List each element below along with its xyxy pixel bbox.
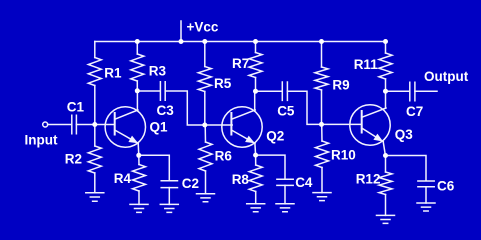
svg-text:C1: C1 [67, 100, 85, 115]
transistor Q2 [222, 91, 262, 155]
node Q2 emitter [253, 153, 258, 158]
svg-text:C5: C5 [277, 104, 295, 119]
svg-text:R5: R5 [214, 76, 232, 91]
resistor R10 [316, 141, 329, 168]
resistor R9 [315, 67, 328, 90]
wire C7 to output [415, 90, 437, 92]
wire Q1 collector node to C3 [137, 90, 159, 92]
svg-text:C6: C6 [437, 179, 455, 194]
capacitor C2 [161, 181, 177, 188]
svg-text:Output: Output [424, 69, 469, 84]
wire Q3 collector node to C7 [386, 90, 410, 92]
wire C2 to ground [168, 188, 170, 205]
svg-text:R9: R9 [332, 78, 349, 93]
svg-text:R2: R2 [65, 152, 82, 167]
node rail-R3 [135, 39, 140, 44]
wire R6 leads [204, 125, 206, 194]
node rail-R7 [253, 39, 258, 44]
wire R10 leads [321, 124, 323, 192]
svg-text:Q2: Q2 [266, 128, 284, 143]
ground under C4 [276, 204, 294, 212]
wire R1 bottom to input node [94, 86, 96, 125]
capacitor C6 [418, 181, 434, 187]
wire C6 to ground [425, 187, 427, 203]
capacitor C4 [277, 179, 293, 185]
wire top supply rail [95, 41, 386, 43]
svg-text:R6: R6 [215, 149, 233, 164]
node Q3 emitter [383, 153, 388, 158]
ground under R4 [130, 204, 148, 212]
resistor R1 [88, 58, 101, 86]
capacitor C3 [160, 82, 165, 100]
node rail-R11 [383, 39, 388, 44]
wire C3 to Q2 base [165, 91, 232, 125]
capacitor C5 [282, 82, 287, 100]
svg-text:R10: R10 [331, 147, 356, 162]
resistor R12 [379, 172, 392, 195]
transistor Q1 [105, 91, 145, 156]
resistor R8 [249, 165, 262, 192]
svg-text:C3: C3 [157, 103, 175, 118]
node rail-Vcc [179, 39, 184, 44]
wire R5 leads [204, 42, 206, 126]
node Q3 base [319, 122, 324, 127]
wire C5 to Q3 base [287, 91, 361, 124]
input terminal circle [43, 122, 48, 127]
svg-text:+Vcc: +Vcc [187, 20, 219, 35]
wire input to C1 [48, 124, 71, 126]
wire R7 leads [255, 42, 257, 92]
wire Q1 emitter to C2 [139, 155, 170, 180]
svg-text:R1: R1 [104, 65, 122, 80]
node rail-R9 [319, 39, 324, 44]
resistor R11 [379, 53, 392, 79]
wire R9 leads [321, 42, 323, 125]
svg-text:Q3: Q3 [395, 127, 414, 142]
node rail-R5 [202, 39, 207, 44]
svg-text:Input: Input [25, 133, 58, 148]
wire R1 top lead from rail [94, 42, 96, 58]
node Q2 base [202, 123, 207, 128]
svg-text:C4: C4 [295, 175, 313, 190]
resistor R7 [249, 53, 262, 78]
node Q2 collector [253, 89, 258, 94]
wire R11 leads [385, 42, 387, 92]
wire Q3 emitter node to R12 and down [385, 156, 387, 216]
wire Q2 emitter node to R8 and down [255, 155, 257, 204]
resistor R6 [199, 142, 212, 171]
ground under R6 [197, 194, 215, 202]
resistor R4 [133, 165, 146, 192]
transistor Q3 [350, 91, 390, 155]
node Q1 emitter [136, 153, 141, 158]
wire C4 to ground [284, 185, 286, 203]
wire Q2 emitter to C4 [256, 155, 285, 179]
wire Q3 emitter to C6 [386, 156, 427, 181]
ground under R8 [247, 204, 265, 212]
ground under R2 [86, 193, 104, 201]
capacitor C1 [72, 115, 77, 134]
svg-text:R12: R12 [356, 172, 381, 187]
ground under R12 [377, 215, 395, 223]
svg-text:C7: C7 [406, 104, 423, 119]
node Q1 collector [135, 88, 140, 93]
resistor R2 [88, 146, 101, 173]
resistor R5 [198, 67, 211, 92]
svg-text:R8: R8 [232, 172, 250, 187]
svg-text:R3: R3 [149, 64, 167, 79]
capacitor C7 [410, 82, 415, 101]
wire R3 leads [136, 42, 138, 91]
svg-text:R11: R11 [354, 57, 379, 72]
ground under C6 [417, 203, 435, 211]
wire C1 to base node of Q1 [76, 124, 114, 126]
resistor R3 [131, 54, 144, 81]
ground under C2 [160, 204, 178, 212]
node Q1 base [92, 122, 97, 127]
node Q3 collector [383, 89, 388, 94]
svg-text:R7: R7 [232, 56, 249, 71]
svg-text:Q1: Q1 [150, 119, 169, 134]
svg-text:C2: C2 [182, 176, 199, 191]
svg-text:R4: R4 [114, 171, 132, 186]
wire +Vcc stub [180, 21, 182, 42]
ground under R10 [313, 193, 331, 201]
wire node to R2 and R2 to ground [94, 125, 96, 193]
wire Q1 emitter node to R4 and down [138, 155, 140, 204]
wire Q2 collector node to C5 [256, 90, 282, 92]
